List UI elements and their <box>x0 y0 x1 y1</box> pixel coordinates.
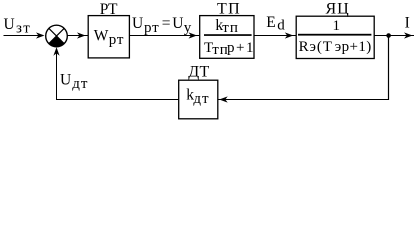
svg-text:р+1: р+1 <box>227 40 255 56</box>
svg-text:Rэ(Т: Rэ(Т <box>299 39 333 55</box>
summing junction filled bottom sector <box>49 36 64 47</box>
arrowhead into РТ block <box>77 32 86 38</box>
svg-text:РТ: РТ <box>100 1 118 18</box>
svg-text:ДТ: ДТ <box>188 63 209 80</box>
svg-text:I: I <box>405 15 410 32</box>
svg-text:=: = <box>162 15 171 32</box>
wire: ТП to ЯЦ <box>254 35 296 37</box>
block ЯЦ (armature circuit) rectangle <box>296 16 374 58</box>
arrowhead into ТП block <box>189 32 198 38</box>
node: feedback tap junction dot <box>386 33 391 38</box>
svg-text:U: U <box>4 16 15 33</box>
svg-text:E: E <box>266 14 275 31</box>
wire: РТ to ТП <box>130 35 200 37</box>
svg-text:W: W <box>94 28 109 45</box>
block ДТ (current sensor) rectangle <box>179 80 218 119</box>
wire: feedback bottom horizontal into ДТ <box>218 99 389 101</box>
svg-text:1: 1 <box>333 18 341 34</box>
svg-text:у: у <box>184 20 192 36</box>
svg-text:U: U <box>172 15 183 32</box>
ЯЦ fraction bar <box>298 34 371 36</box>
svg-text:U: U <box>60 72 71 89</box>
svg-text:ТП: ТП <box>217 1 241 18</box>
wire: ДТ output to left <box>56 99 179 101</box>
arrowhead up into summing junction <box>53 47 59 56</box>
svg-text:тп: тп <box>222 20 239 36</box>
svg-text:U: U <box>132 15 143 32</box>
wire: left feedback riser up to summing junction <box>56 53 58 100</box>
wire: ЯЦ output to I <box>375 35 415 37</box>
arrowhead into ДТ block (pointing left) <box>219 96 228 102</box>
svg-text:эр+1): эр+1) <box>335 39 372 55</box>
arrowhead into summing junction <box>36 32 45 38</box>
ТП fraction bar <box>204 34 252 36</box>
wire: summing junction to regulator block <box>68 35 89 37</box>
svg-text:зт: зт <box>16 21 31 37</box>
svg-text:дт: дт <box>193 91 209 107</box>
svg-text:ЯЦ: ЯЦ <box>326 1 350 18</box>
summing junction X cross <box>49 28 64 43</box>
wire: feedback right riser <box>388 36 390 101</box>
svg-text:d: d <box>277 17 285 33</box>
wire: input Uзт line <box>4 35 41 37</box>
arrowhead into ЯЦ block <box>285 32 294 38</box>
svg-text:дт: дт <box>72 76 88 92</box>
block ТП (thyristor converter) rectangle <box>200 16 254 59</box>
block РТ (current regulator) rectangle <box>88 16 129 58</box>
svg-text:рт: рт <box>144 20 159 36</box>
svg-text:рт: рт <box>109 32 124 48</box>
summing junction (comparator) circle <box>46 25 68 47</box>
output arrowhead <box>404 32 413 38</box>
